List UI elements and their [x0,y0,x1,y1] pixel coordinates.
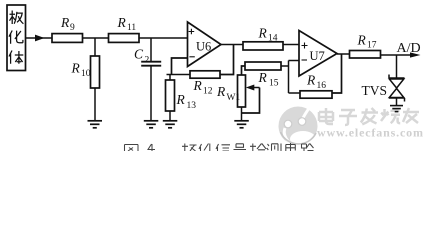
svg-text:C: C [134,47,144,62]
node: C2 branch [150,38,152,61]
svg-text:16: 16 [317,81,327,91]
R15 right lead [281,65,289,67]
svg-text:14: 14 [268,34,278,44]
input arrow wire [26,37,53,39]
box 极化体 [7,5,26,71]
A/D arrowhead [410,52,421,57]
极 [182,144,197,152]
watermark logo disc [279,103,318,147]
watermark text 电子发烧友 (drawn strokes) [319,108,419,125]
svg-text:R: R [60,15,70,30]
友 [403,108,419,123]
U7 minus sign [302,59,308,61]
svg-text:U7: U7 [310,49,325,63]
子 [339,110,357,125]
wire R10 to ground [94,88,96,121]
svg-text:TVS: TVS [362,83,388,98]
wire node line y74.5 [167,74,191,76]
arrowhead [35,35,45,42]
output wire to A/D [381,54,412,56]
ground (C2) [144,121,159,128]
U6 plus sign [189,29,195,35]
svg-text:R: R [258,26,268,41]
U6 minus sign [189,56,194,58]
svg-text:R: R [216,84,226,99]
char 体 [9,51,23,64]
号 [234,144,247,150]
resistor R13 [166,80,175,111]
U7 output wire [337,53,350,55]
resistor R11 [109,34,140,43]
R13 top lead [169,75,171,81]
svg-text:R: R [117,15,127,30]
resistor R15 [245,62,281,70]
U7 inverting input wire [289,60,300,62]
U7 plus sign [302,43,308,49]
svg-text:R: R [306,73,316,88]
化 [199,144,210,152]
svg-text:A/D: A/D [397,41,421,56]
ground (R13) [163,121,178,128]
svg-text:U6: U6 [196,40,211,54]
svg-text:15: 15 [269,79,279,89]
op-amp U7 [299,31,337,77]
svg-text:R: R [71,61,81,76]
ground (RW1) [234,121,249,128]
resistor R14 [243,42,283,50]
svg-text:R: R [357,33,367,48]
电 [286,143,296,151]
wire R11 to U6 [139,37,188,39]
svg-text:2: 2 [145,56,150,66]
R15 left lead to RW1 [242,66,246,75]
R16 right lead to output [332,54,342,93]
resistor R12 (feedback U6) [190,71,220,78]
TVS branch wire [396,55,398,78]
RW1 wiper to bottom wire [242,88,260,114]
烧 [381,108,400,123]
信 [216,144,230,151]
wire C2 to ground [150,66,152,121]
检 [250,144,266,152]
potentiometer RW1 [238,75,246,107]
ground (R10) [88,121,103,128]
R12 right lead to output [220,45,234,75]
resistor R17 [350,51,381,59]
resistor R9 [52,34,83,43]
svg-text:www.elecfans.com: www.elecfans.com [317,126,423,140]
ground (TVS) [390,106,403,112]
resistor R10 [91,56,100,88]
caption 图4 极化信号检测电路 (top-cut strokes) [125,143,314,151]
RW1 bottom lead [241,107,243,121]
TVS to ground wire [396,98,398,106]
wire R13 to ground [169,111,171,121]
U6 inverting input wire [172,58,188,75]
svg-text:12: 12 [203,87,213,97]
node: R10 branch [94,38,96,56]
wire R9 to R11 [83,37,109,39]
TVS diode [389,75,405,102]
U6 output wire [221,44,243,46]
svg-text:17: 17 [367,41,377,51]
node vertical (R15/R16/U7-) [288,61,290,94]
char 化 [9,31,23,44]
svg-text:R: R [193,78,203,93]
svg-text:11: 11 [127,23,136,33]
svg-text:W1: W1 [227,93,241,103]
resistor R16 (feedback U7) [300,91,332,98]
op-amp U6 [188,22,222,67]
svg-text:R: R [176,92,186,107]
svg-text:13: 13 [187,101,197,111]
R16 left lead [289,92,301,94]
svg-text:R: R [258,70,268,85]
capacitor C2 [141,62,161,66]
4 [148,144,155,151]
测 [267,144,281,152]
wire R14 to U7 [283,44,299,46]
svg-text:9: 9 [70,23,75,33]
图 [125,145,139,152]
RW1 wiper arrow [253,87,260,89]
发 [361,108,378,124]
svg-text:10: 10 [81,69,91,79]
char 极 [10,11,24,25]
电 [319,108,333,124]
路 [302,144,314,152]
